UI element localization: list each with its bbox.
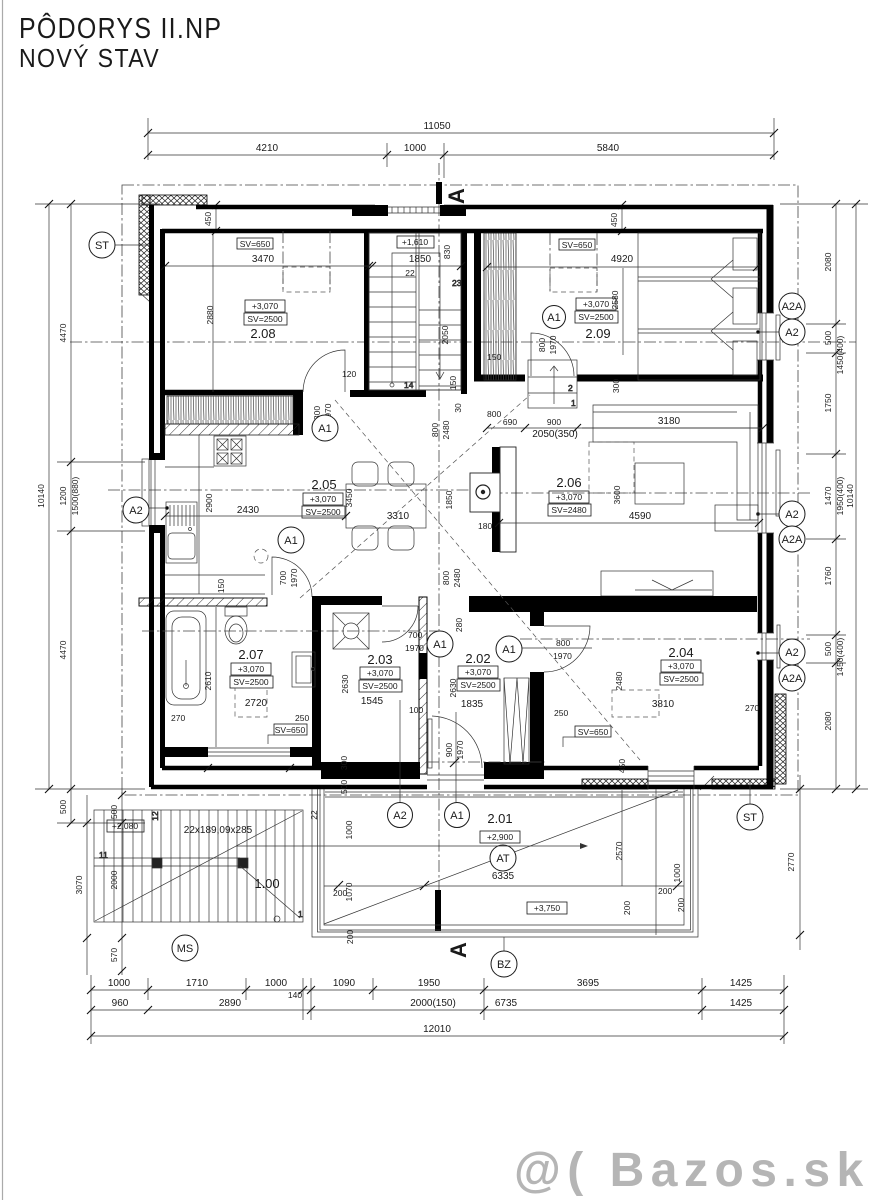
hatched band bathroom top bbox=[139, 598, 267, 606]
svg-text:SV=2500: SV=2500 bbox=[305, 507, 340, 517]
dims below 2.09 wall bbox=[483, 379, 767, 440]
svg-text:150: 150 bbox=[216, 579, 226, 593]
svg-text:ST: ST bbox=[743, 812, 757, 824]
insulation hatch top-left exterior bbox=[139, 195, 150, 295]
svg-text:500: 500 bbox=[58, 800, 68, 814]
svg-text:@( Bazos.sk: @( Bazos.sk bbox=[514, 1144, 870, 1197]
svg-text:2000: 2000 bbox=[109, 870, 119, 889]
svg-text:1760: 1760 bbox=[823, 566, 833, 585]
stairwell right wall bbox=[461, 229, 467, 394]
svg-text:BZ: BZ bbox=[497, 959, 511, 971]
room 2.09 labels bbox=[483, 233, 761, 362]
wall right of bathroom bbox=[312, 605, 321, 766]
title bbox=[19, 11, 222, 73]
svg-text:A2A: A2A bbox=[782, 301, 803, 313]
bottom dim chains bbox=[87, 975, 788, 1044]
door 2.04 bbox=[544, 626, 590, 672]
svg-text:830: 830 bbox=[442, 245, 452, 259]
exterior wall bottom inner line bbox=[162, 766, 759, 771]
svg-text:300: 300 bbox=[611, 379, 621, 393]
svg-text:3180: 3180 bbox=[658, 416, 681, 427]
terrace dim vertical line bbox=[621, 790, 623, 886]
wall thickness 450 labels top bbox=[203, 201, 626, 235]
svg-text:2890: 2890 bbox=[219, 998, 242, 1009]
svg-text:1970: 1970 bbox=[455, 740, 465, 759]
svg-text:800: 800 bbox=[430, 423, 440, 437]
axis horizontal middle bbox=[108, 489, 500, 491]
svg-text:SV=2500: SV=2500 bbox=[460, 680, 495, 690]
svg-text:2630: 2630 bbox=[448, 678, 458, 697]
svg-text:2720: 2720 bbox=[245, 698, 268, 709]
beds 2.09 bbox=[638, 233, 760, 380]
left dim chain bbox=[35, 200, 160, 827]
svg-text:1200: 1200 bbox=[58, 486, 68, 505]
svg-text:MS: MS bbox=[177, 943, 194, 955]
svg-text:200: 200 bbox=[345, 930, 355, 944]
wall 2.02/2.04 bbox=[530, 612, 544, 626]
stairwell bottom wall bbox=[350, 390, 426, 397]
svg-text:3470: 3470 bbox=[252, 254, 275, 265]
terrace 2.01 bbox=[312, 789, 698, 951]
svg-text:SV=2500: SV=2500 bbox=[247, 314, 282, 324]
svg-text:1.00: 1.00 bbox=[254, 876, 279, 891]
svg-text:280: 280 bbox=[454, 618, 464, 632]
svg-text:270: 270 bbox=[171, 713, 185, 723]
svg-text:2900: 2900 bbox=[204, 493, 214, 512]
svg-text:SV=2500: SV=2500 bbox=[578, 312, 613, 322]
door 2.03 bbox=[382, 606, 418, 642]
svg-text:SV=2480: SV=2480 bbox=[551, 505, 586, 515]
svg-text:2050: 2050 bbox=[440, 325, 450, 344]
svg-text:2880: 2880 bbox=[205, 305, 215, 324]
exterior wall left outer line bbox=[149, 205, 154, 787]
svg-text:2770: 2770 bbox=[786, 852, 796, 871]
svg-text:SV=650: SV=650 bbox=[275, 725, 306, 735]
wardrobe wall stub kitchen bbox=[293, 392, 303, 435]
svg-text:2080: 2080 bbox=[823, 252, 833, 271]
svg-text:1470: 1470 bbox=[823, 486, 833, 505]
svg-text:+3,070: +3,070 bbox=[465, 667, 492, 677]
svg-text:1710: 1710 bbox=[186, 978, 209, 989]
svg-text:2080: 2080 bbox=[823, 711, 833, 730]
stairs labels bbox=[107, 820, 588, 961]
svg-text:A2A: A2A bbox=[782, 534, 803, 546]
svg-text:11: 11 bbox=[99, 850, 108, 860]
right dim chain bbox=[780, 200, 868, 793]
svg-text:1450(400): 1450(400) bbox=[835, 335, 845, 374]
svg-text:3310: 3310 bbox=[387, 511, 410, 522]
insulation hatch bottom-right exterior bbox=[775, 694, 786, 784]
svg-text:2.06: 2.06 bbox=[556, 475, 581, 490]
svg-text:PÔDORYS II.NP: PÔDORYS II.NP bbox=[19, 11, 222, 44]
exterior wall right outer line bbox=[767, 205, 774, 787]
section marker A top bbox=[436, 182, 469, 204]
svg-text:1970: 1970 bbox=[548, 335, 558, 354]
room 2.07 labels bbox=[171, 579, 309, 744]
svg-text:140: 140 bbox=[288, 990, 302, 1000]
sofa living bbox=[593, 405, 758, 531]
stove bbox=[214, 436, 246, 466]
svg-text:500: 500 bbox=[823, 642, 833, 656]
svg-text:22x189,09x285: 22x189,09x285 bbox=[184, 825, 253, 836]
ticks bottom wall left bbox=[204, 764, 294, 772]
svg-text:A2A: A2A bbox=[782, 673, 803, 685]
svg-text:+2,900: +2,900 bbox=[487, 832, 514, 842]
wardrobe band bedroom 2.09 bbox=[484, 233, 516, 380]
svg-text:960: 960 bbox=[112, 998, 129, 1009]
svg-text:2000(150): 2000(150) bbox=[410, 998, 456, 1009]
wardrobe hatch strip bbox=[165, 424, 299, 435]
window sills outside right/left bbox=[142, 315, 780, 668]
svg-text:6735: 6735 bbox=[495, 998, 518, 1009]
axis bathroom horizontal bbox=[142, 630, 440, 632]
svg-text:3810: 3810 bbox=[652, 699, 675, 710]
svg-text:200: 200 bbox=[676, 898, 686, 912]
svg-text:800: 800 bbox=[441, 571, 451, 585]
stairwell left wall bbox=[364, 229, 369, 392]
wall above 2.02 bbox=[469, 596, 757, 612]
svg-text:2580: 2580 bbox=[610, 290, 620, 309]
svg-text:1970: 1970 bbox=[405, 643, 424, 653]
svg-text:1970: 1970 bbox=[289, 568, 299, 587]
svg-text:2.02: 2.02 bbox=[465, 651, 490, 666]
svg-text:1950: 1950 bbox=[418, 978, 441, 989]
svg-text:3450: 3450 bbox=[344, 488, 354, 507]
svg-text:AT: AT bbox=[496, 853, 510, 865]
section marker A bottom bbox=[435, 890, 471, 958]
circles markers bbox=[89, 232, 805, 830]
svg-text:1850: 1850 bbox=[409, 254, 432, 265]
svg-text:1500(880): 1500(880) bbox=[70, 476, 80, 515]
svg-text:+3,070: +3,070 bbox=[668, 661, 695, 671]
hall door 2.08 labels bbox=[312, 403, 501, 441]
svg-text:1000: 1000 bbox=[344, 820, 354, 839]
svg-text:250: 250 bbox=[554, 708, 568, 718]
exterior wall right inner line bbox=[758, 233, 763, 766]
interior wall 2.08 bottom bbox=[162, 390, 303, 396]
svg-text:200: 200 bbox=[622, 901, 632, 915]
svg-text:3070: 3070 bbox=[74, 875, 84, 894]
left lower dim chain stairs bbox=[74, 789, 126, 975]
svg-text:2.08: 2.08 bbox=[250, 326, 275, 341]
svg-text:A2: A2 bbox=[785, 509, 798, 521]
svg-text:10140: 10140 bbox=[36, 484, 46, 508]
dashed roof diagonals bbox=[300, 395, 640, 760]
svg-text:4470: 4470 bbox=[58, 640, 68, 659]
exterior wall left inner line bbox=[160, 229, 165, 768]
dims 300 500 below 2.03 bbox=[339, 756, 349, 794]
svg-text:700: 700 bbox=[278, 571, 288, 585]
bathroom south wall bbox=[160, 747, 317, 757]
door 2.09 lower-left bbox=[537, 335, 558, 354]
svg-text:A2: A2 bbox=[129, 505, 142, 517]
svg-text:1450(400): 1450(400) bbox=[835, 637, 845, 676]
kitchen counter left bbox=[165, 435, 268, 747]
stairs up treads bbox=[369, 233, 462, 390]
wall 2.03/2.02 bbox=[419, 597, 427, 774]
svg-text:A: A bbox=[446, 942, 471, 958]
dining table and chairs bbox=[346, 462, 426, 550]
bathtub bbox=[166, 611, 206, 705]
svg-text:1070: 1070 bbox=[344, 882, 354, 901]
window kitchen left bbox=[146, 460, 169, 525]
svg-text:2: 2 bbox=[568, 383, 573, 393]
svg-text:6335: 6335 bbox=[492, 871, 515, 882]
svg-text:2.05: 2.05 bbox=[311, 477, 336, 492]
axis horizontal lower bbox=[520, 638, 810, 640]
tv cabinet wall bbox=[601, 571, 713, 596]
svg-text:1545: 1545 bbox=[361, 696, 384, 707]
svg-text:1: 1 bbox=[298, 909, 303, 919]
svg-text:900: 900 bbox=[444, 743, 454, 757]
svg-text:800: 800 bbox=[487, 409, 501, 419]
svg-text:2630: 2630 bbox=[340, 674, 350, 693]
svg-text:4210: 4210 bbox=[256, 143, 279, 154]
svg-text:1835: 1835 bbox=[461, 699, 484, 710]
svg-text:1000: 1000 bbox=[672, 863, 682, 882]
window room204 bottom bbox=[648, 766, 694, 789]
room 2.02 labels bbox=[448, 618, 592, 710]
svg-text:2430: 2430 bbox=[237, 505, 260, 516]
svg-text:A2: A2 bbox=[393, 810, 406, 822]
svg-text:SV=650: SV=650 bbox=[578, 727, 609, 737]
window room204 right bbox=[757, 633, 782, 660]
svg-text:1850: 1850 bbox=[444, 490, 454, 509]
svg-text:+3,070: +3,070 bbox=[238, 664, 265, 674]
svg-text:1950(400): 1950(400) bbox=[835, 476, 845, 515]
svg-text:A1: A1 bbox=[318, 423, 331, 435]
svg-text:1000: 1000 bbox=[108, 978, 131, 989]
bathroom door bbox=[272, 557, 312, 597]
svg-text:SV=650: SV=650 bbox=[240, 239, 271, 249]
svg-text:2480: 2480 bbox=[441, 420, 451, 439]
svg-text:30: 30 bbox=[453, 403, 463, 413]
svg-text:1000: 1000 bbox=[404, 143, 427, 154]
svg-text:+3,750: +3,750 bbox=[534, 903, 561, 913]
svg-text:NOVÝ STAV: NOVÝ STAV bbox=[19, 45, 160, 74]
svg-text:A1: A1 bbox=[284, 535, 297, 547]
svg-text:180: 180 bbox=[478, 521, 492, 531]
svg-text:+3,070: +3,070 bbox=[367, 668, 394, 678]
svg-text:12010: 12010 bbox=[423, 1024, 451, 1035]
svg-text:A: A bbox=[444, 188, 469, 204]
shower 2.03 bbox=[333, 613, 369, 649]
svg-text:2610: 2610 bbox=[203, 671, 213, 690]
svg-text:120: 120 bbox=[342, 369, 356, 379]
svg-text:250: 250 bbox=[295, 713, 309, 723]
right lower dim 2770 bbox=[786, 775, 804, 950]
washbasin bathroom bbox=[292, 652, 315, 687]
svg-text:+3,070: +3,070 bbox=[310, 494, 337, 504]
svg-text:+3,070: +3,070 bbox=[583, 299, 610, 309]
svg-text:2.09: 2.09 bbox=[585, 326, 610, 341]
tv table bbox=[635, 463, 684, 504]
exterior wall top inner line bbox=[162, 229, 763, 234]
svg-text:22: 22 bbox=[309, 810, 319, 820]
svg-text:A1: A1 bbox=[433, 639, 446, 651]
svg-text:A2: A2 bbox=[785, 647, 798, 659]
svg-text:1425: 1425 bbox=[730, 978, 753, 989]
svg-text:SV=650: SV=650 bbox=[562, 240, 593, 250]
wall piece right of bathroom door bbox=[312, 596, 382, 605]
svg-text:A1: A1 bbox=[502, 644, 515, 656]
svg-text:900: 900 bbox=[547, 417, 561, 427]
svg-text:300: 300 bbox=[339, 756, 349, 770]
svg-text:+3,070: +3,070 bbox=[252, 301, 279, 311]
door 2.08 bbox=[303, 350, 345, 392]
svg-text:1: 1 bbox=[571, 398, 576, 408]
window bedroom right bbox=[757, 313, 782, 360]
svg-text:22: 22 bbox=[405, 268, 415, 278]
svg-text:23: 23 bbox=[452, 278, 462, 288]
axis line A vertical dash-dot bbox=[438, 163, 440, 930]
closet 2.02 bbox=[504, 678, 529, 764]
roof outline dash-dot boundary bbox=[122, 185, 798, 795]
room 2.04 labels bbox=[554, 645, 759, 773]
svg-text:450: 450 bbox=[617, 759, 627, 773]
bathroom door labels bbox=[278, 568, 299, 587]
svg-text:500: 500 bbox=[109, 805, 119, 819]
svg-text:12: 12 bbox=[150, 811, 160, 821]
svg-text:2.07: 2.07 bbox=[238, 647, 263, 662]
top dimension chain 11050 bbox=[144, 118, 778, 160]
axis horizontal upper window axis bbox=[70, 341, 856, 343]
svg-text:2.01: 2.01 bbox=[487, 811, 512, 826]
svg-text:800: 800 bbox=[556, 638, 570, 648]
svg-text:1425: 1425 bbox=[730, 998, 753, 1009]
page edge line bbox=[2, 0, 4, 1200]
skylight dashed living bbox=[589, 442, 634, 493]
svg-text:SV=2500: SV=2500 bbox=[233, 677, 268, 687]
svg-text:450: 450 bbox=[609, 213, 619, 227]
svg-text:450: 450 bbox=[203, 212, 213, 226]
svg-text:800: 800 bbox=[537, 338, 547, 352]
svg-text:200: 200 bbox=[658, 886, 672, 896]
svg-text:4920: 4920 bbox=[611, 254, 634, 265]
terrace labels bbox=[309, 810, 686, 977]
svg-text:ST: ST bbox=[95, 240, 109, 252]
svg-text:+3,070: +3,070 bbox=[556, 492, 583, 502]
exterior wall top outer line bbox=[196, 205, 773, 210]
wardrobe band kitchen top bbox=[167, 396, 293, 424]
svg-text:1090: 1090 bbox=[333, 978, 356, 989]
svg-text:2480: 2480 bbox=[614, 671, 624, 690]
svg-text:14: 14 bbox=[404, 380, 414, 390]
svg-text:270: 270 bbox=[745, 703, 759, 713]
door 2.09 bbox=[531, 333, 574, 376]
svg-text:700: 700 bbox=[408, 630, 422, 640]
terrace right dims bbox=[656, 789, 682, 935]
svg-text:500: 500 bbox=[823, 331, 833, 345]
svg-text:11050: 11050 bbox=[423, 121, 451, 132]
svg-text:A1: A1 bbox=[547, 312, 560, 324]
svg-text:4470: 4470 bbox=[58, 323, 68, 342]
svg-text:A2: A2 bbox=[785, 327, 798, 339]
svg-text:1970: 1970 bbox=[553, 651, 572, 661]
svg-text:SV=2500: SV=2500 bbox=[663, 674, 698, 684]
wall below 2.09 bbox=[474, 375, 763, 382]
svg-text:4590: 4590 bbox=[629, 511, 652, 522]
svg-text:2570: 2570 bbox=[614, 841, 624, 860]
exterior stairs MS bbox=[94, 810, 303, 922]
window stairwell top bbox=[388, 207, 440, 213]
svg-text:1750: 1750 bbox=[823, 393, 833, 412]
svg-text:100: 100 bbox=[409, 705, 423, 715]
toilet bbox=[225, 607, 247, 644]
svg-text:+2,080: +2,080 bbox=[112, 821, 139, 831]
stair labels bbox=[365, 236, 465, 413]
steps hall to 2.09 bbox=[528, 360, 577, 408]
svg-text:570: 570 bbox=[109, 948, 119, 962]
svg-text:10140: 10140 bbox=[845, 484, 855, 508]
svg-text:5840: 5840 bbox=[597, 143, 620, 154]
svg-text:690: 690 bbox=[503, 417, 517, 427]
svg-text:+1,610: +1,610 bbox=[402, 237, 429, 247]
svg-text:2480: 2480 bbox=[452, 568, 462, 587]
svg-text:A1: A1 bbox=[450, 810, 463, 822]
top dimension chain 4210/1000/5840 bbox=[144, 143, 778, 178]
svg-text:2.04: 2.04 bbox=[668, 645, 693, 660]
svg-text:150: 150 bbox=[448, 376, 458, 390]
flue wall living bbox=[470, 447, 516, 552]
room 2.06 labels bbox=[495, 428, 763, 527]
svg-text:SV=2500: SV=2500 bbox=[362, 681, 397, 691]
svg-text:2.03: 2.03 bbox=[367, 652, 392, 667]
svg-text:3695: 3695 bbox=[577, 978, 600, 989]
svg-text:1000: 1000 bbox=[265, 978, 288, 989]
terrace door labels bbox=[427, 716, 545, 780]
room 2.08 labels bbox=[161, 231, 376, 392]
svg-text:150: 150 bbox=[487, 352, 501, 362]
window living right bbox=[757, 443, 782, 533]
svg-text:3600: 3600 bbox=[612, 485, 622, 504]
room 2.05 labels bbox=[161, 477, 492, 587]
exterior wall bottom outer line bbox=[151, 785, 773, 790]
svg-text:2050(350): 2050(350) bbox=[532, 429, 578, 440]
room 2.03 labels bbox=[340, 630, 453, 715]
